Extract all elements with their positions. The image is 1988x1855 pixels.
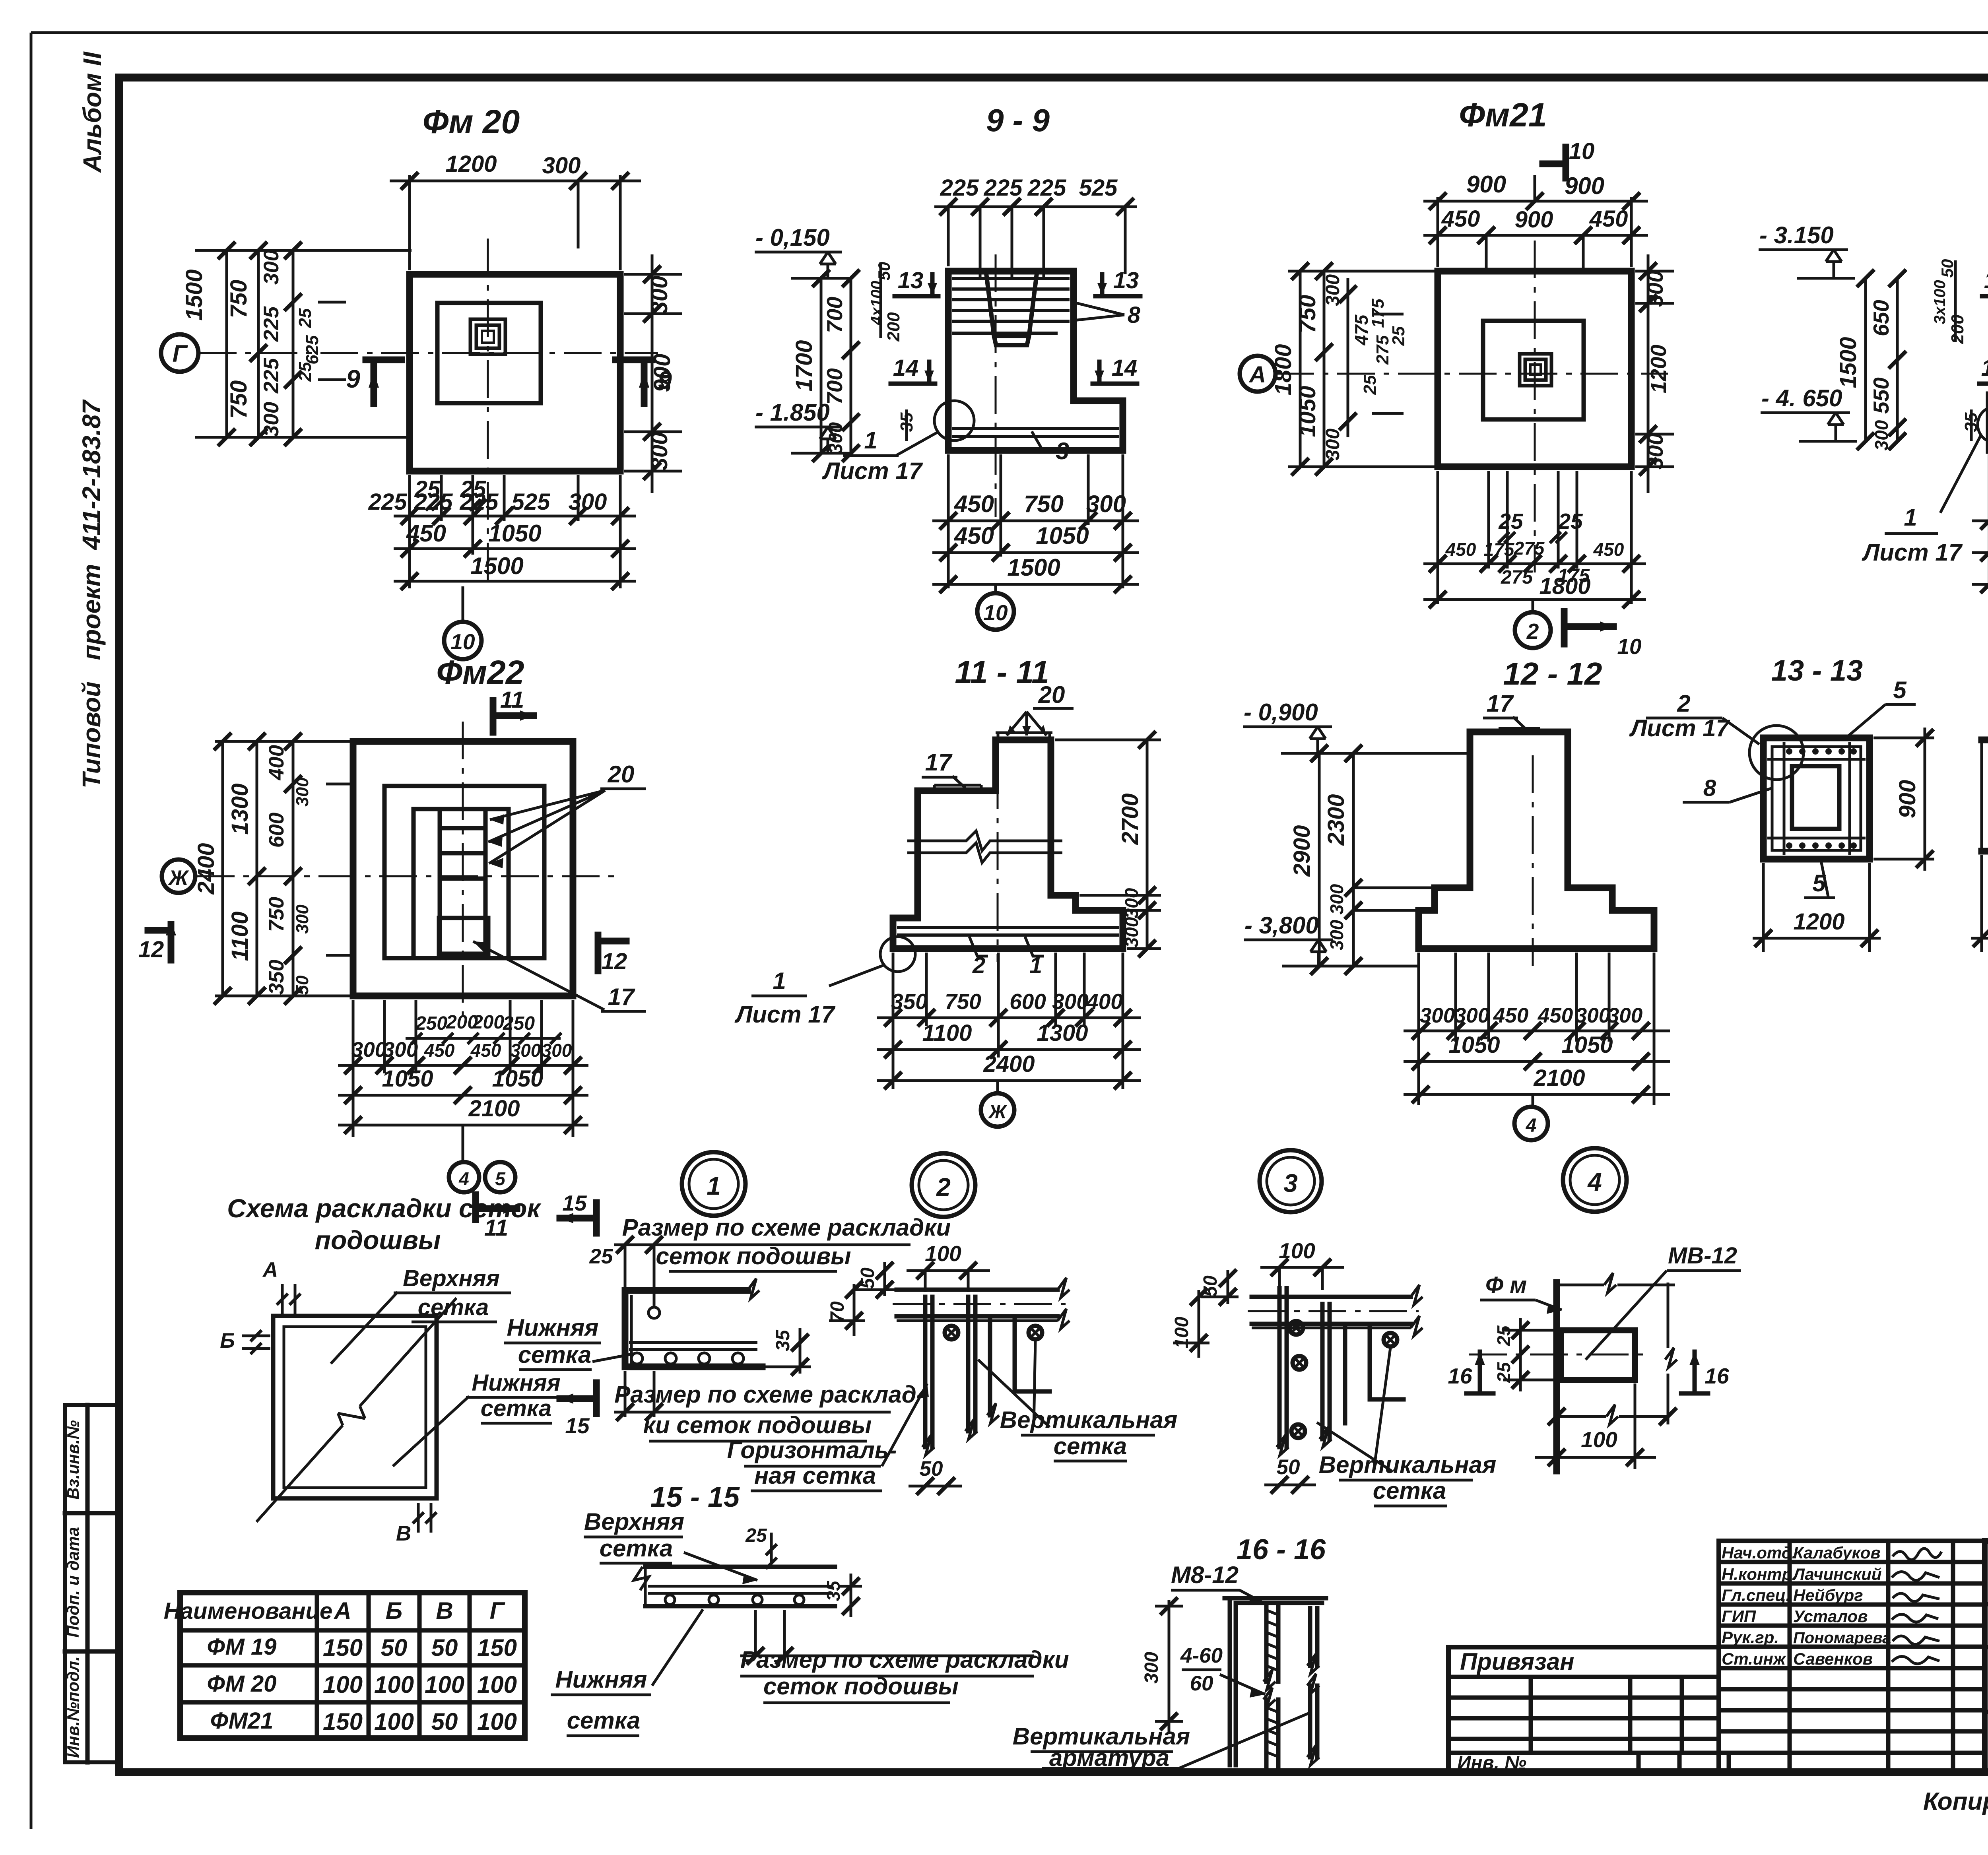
- svg-text:100: 100: [1581, 1427, 1617, 1452]
- svg-text:Горизонталь-: Горизонталь-: [727, 1437, 897, 1463]
- dim 1500: [940, 576, 957, 593]
- svg-text:Альбом II: Альбом II: [78, 51, 107, 173]
- svg-text:А: А: [262, 1258, 278, 1282]
- break line across columns: [907, 831, 1062, 863]
- foundation Фм22 middle step: [384, 786, 544, 958]
- uzel 3 corner wall: [1345, 1328, 1404, 1423]
- dim chain top 1200 300: [390, 175, 641, 270]
- svg-text:Фм21: Фм21: [1459, 96, 1547, 134]
- svg-text:300: 300: [646, 432, 672, 471]
- svg-text:300: 300: [293, 904, 312, 934]
- svg-text:Типовой проект 411-2-183.87: Типовой проект 411-2-183.87: [77, 399, 106, 788]
- section marker 16 right: [1693, 1352, 1697, 1393]
- dim right 2700 300 300: [1055, 740, 1161, 949]
- svg-text:100: 100: [477, 1671, 517, 1698]
- svg-text:700: 700: [822, 368, 847, 405]
- svg-text:8: 8: [1703, 775, 1716, 801]
- dim chain right 300 900 300: [624, 254, 682, 493]
- section marker 15 top: [560, 1203, 596, 1233]
- slab band 15-15: [645, 1567, 835, 1606]
- svg-text:Лист 17: Лист 17: [734, 1001, 836, 1028]
- foundation Фм21 column socket: [1520, 354, 1551, 386]
- dim 1200 below 13-13: [1753, 863, 1881, 952]
- main title block: [1985, 1541, 1988, 1772]
- svg-text:14: 14: [1112, 355, 1138, 381]
- svg-text:300: 300: [1121, 888, 1142, 918]
- svg-text:300: 300: [646, 276, 672, 314]
- svg-text:300: 300: [1575, 1004, 1610, 1027]
- svg-text:300: 300: [511, 1040, 541, 1061]
- svg-text:4: 4: [1587, 1168, 1602, 1196]
- axis circle Ж: [162, 860, 195, 893]
- svg-text:Усталов: Усталов: [1793, 1607, 1868, 1626]
- svg-text:300: 300: [569, 489, 607, 515]
- section 11-11 foundation outline: [893, 740, 1123, 949]
- svg-text:225: 225: [414, 489, 453, 515]
- svg-text:Ж: Ж: [988, 1102, 1008, 1123]
- axis circle А: [1240, 356, 1276, 392]
- leader 8 top mesh: [1074, 303, 1124, 320]
- svg-text:750: 750: [226, 380, 252, 419]
- dim 1700 vertical: [820, 278, 823, 453]
- dim 900 right 13-13: [1873, 728, 1934, 871]
- centerline vertical Фм22: [462, 722, 464, 1018]
- svg-text:В: В: [436, 1597, 453, 1624]
- svg-text:450: 450: [406, 520, 446, 547]
- svg-text:625: 625: [303, 335, 322, 365]
- section marker 15 bottom: [560, 1383, 596, 1414]
- svg-text:1050: 1050: [488, 520, 541, 547]
- dim cluster left of Фм20: [195, 250, 412, 437]
- svg-text:175: 175: [1484, 539, 1515, 560]
- section 9-9 foundation outline: [948, 271, 1123, 450]
- svg-text:Лачинский: Лачинский: [1792, 1565, 1882, 1583]
- axis circle Ж below 11-11: [996, 1081, 999, 1093]
- svg-text:900: 900: [649, 354, 675, 392]
- foundation Фм20 outer slab outline: [410, 274, 620, 471]
- svg-text:14: 14: [893, 355, 919, 381]
- svg-text:550: 550: [1869, 377, 1893, 414]
- svg-text:15: 15: [562, 1191, 587, 1215]
- uzel 2 vertical mesh posts: [925, 1297, 975, 1447]
- dim chain below 350 750 600 300 400: [877, 953, 1141, 1089]
- svg-text:300: 300: [1052, 989, 1089, 1014]
- svg-text:3: 3: [1056, 438, 1069, 464]
- svg-text:300: 300: [825, 422, 846, 454]
- detail circle 2: [912, 1153, 975, 1217]
- dim chain top 900 900: [1423, 175, 1648, 267]
- svg-text:450: 450: [954, 491, 994, 517]
- svg-text:12 - 12: 12 - 12: [1503, 656, 1602, 691]
- foundation Фм22 column sockets pattern: [414, 809, 509, 958]
- svg-text:Г: Г: [490, 1597, 506, 1624]
- svg-text:17: 17: [1487, 690, 1514, 717]
- svg-text:10: 10: [1617, 634, 1642, 659]
- svg-text:50: 50: [1277, 1455, 1300, 1479]
- svg-text:600: 600: [1010, 989, 1046, 1014]
- svg-text:2400: 2400: [193, 843, 219, 895]
- svg-text:750: 750: [226, 280, 252, 318]
- section 12-12 foundation outline: [1419, 732, 1654, 949]
- section 11-11 centerline: [997, 771, 999, 962]
- svg-text:100: 100: [1279, 1238, 1315, 1263]
- svg-text:Схема раскладки сеток: Схема раскладки сеток: [227, 1193, 542, 1223]
- svg-text:9 - 9: 9 - 9: [986, 103, 1050, 138]
- dim chain top 450 900 450: [1423, 235, 1648, 270]
- mesh wire circles uzel 1: [631, 1353, 643, 1364]
- slab mesh 11-11: [897, 927, 1119, 935]
- svg-text:60: 60: [1190, 1672, 1213, 1695]
- section marker 9 right: [615, 360, 652, 404]
- svg-text:Вз.инв.№: Вз.инв.№: [64, 1420, 82, 1500]
- bottom mesh lines uzel 1: [629, 1343, 757, 1350]
- svg-text:9: 9: [346, 365, 360, 393]
- svg-text:Нач.отд.: Нач.отд.: [1722, 1543, 1796, 1562]
- svg-text:Размер по схеме раскладки: Размер по схеме раскладки: [622, 1214, 951, 1241]
- svg-text:20: 20: [608, 761, 635, 788]
- svg-text:225: 225: [368, 489, 408, 515]
- section 9-9 column socket cup: [986, 272, 1037, 345]
- svg-text:225: 225: [460, 489, 499, 515]
- section marker 14 left: [1979, 362, 1988, 384]
- svg-text:150: 150: [477, 1634, 517, 1661]
- svg-text:2100: 2100: [468, 1096, 520, 1122]
- svg-text:35: 35: [823, 1580, 844, 1601]
- svg-text:Верхняя: Верхняя: [584, 1508, 684, 1535]
- svg-text:13: 13: [898, 268, 924, 293]
- dim 700 700 300 vertical: [850, 278, 852, 453]
- svg-text:2: 2: [1526, 619, 1539, 644]
- svg-text:100: 100: [425, 1671, 464, 1698]
- svg-text:1: 1: [1904, 504, 1917, 531]
- dim cluster left of Фм21: [1288, 271, 1438, 467]
- centerline vertical Фм21: [1534, 241, 1536, 572]
- section marker 13 right: [1095, 274, 1140, 296]
- mesh wire circles 15-15: [665, 1595, 675, 1605]
- svg-text:- 3,800: - 3,800: [1244, 912, 1319, 939]
- bottom label Размер по схеме раскладки 15-15: [755, 1610, 784, 1656]
- svg-text:250: 250: [415, 1013, 447, 1034]
- dims below Фм21: [1423, 471, 1646, 604]
- uzel 2 horizontal slab band: [897, 1290, 1058, 1316]
- svg-text:Лист 17: Лист 17: [1629, 715, 1730, 741]
- svg-text:300: 300: [1420, 1004, 1455, 1027]
- svg-text:13 - 13: 13 - 13: [1771, 654, 1863, 687]
- svg-text:450: 450: [470, 1040, 501, 1061]
- section marker 16 left: [1478, 1352, 1482, 1393]
- svg-text:1050: 1050: [1448, 1032, 1500, 1058]
- left column top plate: [934, 785, 981, 791]
- svg-text:2700: 2700: [1117, 793, 1143, 845]
- axis circle Г: [161, 334, 198, 372]
- section marker 14 right: [1093, 362, 1137, 384]
- dim chains below Фм20: [394, 475, 636, 588]
- svg-text:300: 300: [1454, 1004, 1489, 1027]
- svg-text:13: 13: [1113, 268, 1139, 293]
- axis circle 10 below 9-9: [994, 584, 997, 593]
- svg-text:100: 100: [925, 1241, 961, 1266]
- svg-text:- 1.850: - 1.850: [755, 399, 830, 426]
- centerline horizontal: [199, 352, 658, 354]
- svg-text:1100: 1100: [227, 912, 253, 961]
- svg-text:200: 200: [472, 1012, 504, 1033]
- svg-text:200: 200: [1948, 314, 1967, 344]
- svg-text:25: 25: [589, 1245, 613, 1268]
- second rod 16-16: [1310, 1608, 1317, 1757]
- svg-text:1500: 1500: [1007, 554, 1060, 581]
- svg-text:МВ-12: МВ-12: [1668, 1243, 1737, 1269]
- mesh opening: [1792, 766, 1839, 829]
- left stamp column: [65, 1405, 119, 1762]
- svg-text:300: 300: [1643, 433, 1668, 470]
- svg-text:Пономарева: Пономарева: [1793, 1629, 1891, 1647]
- svg-text:25: 25: [295, 308, 315, 328]
- svg-text:225: 225: [1027, 175, 1067, 201]
- svg-text:17: 17: [925, 749, 953, 776]
- svg-text:сетка: сетка: [1373, 1477, 1446, 1504]
- svg-text:4: 4: [458, 1168, 469, 1189]
- svg-text:Савенков: Савенков: [1793, 1649, 1873, 1668]
- svg-text:1500: 1500: [1835, 337, 1861, 388]
- svg-text:300: 300: [1326, 884, 1347, 914]
- axis circle 2 below Фм21: [1532, 600, 1534, 612]
- svg-text:1200: 1200: [445, 151, 497, 177]
- svg-text:17: 17: [608, 984, 635, 1010]
- svg-text:2400: 2400: [983, 1051, 1035, 1077]
- svg-text:Вертикальная: Вертикальная: [1000, 1407, 1177, 1433]
- svg-text:Лист 17: Лист 17: [822, 458, 923, 484]
- svg-text:16: 16: [1705, 1364, 1729, 1388]
- svg-text:3x100: 3x100: [1931, 280, 1949, 324]
- axis circle 4 below 12-12: [1532, 1094, 1534, 1108]
- svg-text:1050: 1050: [1036, 522, 1089, 549]
- svg-text:225: 225: [984, 175, 1023, 201]
- svg-text:750: 750: [1295, 295, 1320, 334]
- svg-text:450: 450: [1445, 539, 1476, 560]
- svg-text:225: 225: [940, 175, 979, 201]
- svg-text:1050: 1050: [1295, 386, 1320, 437]
- svg-text:Размер по схеме раскладки: Размер по схеме раскладки: [740, 1646, 1069, 1673]
- svg-text:300: 300: [1121, 917, 1142, 947]
- mesh bars 13-13: [1767, 742, 1866, 855]
- section 13-13 column mesh square: [1763, 738, 1870, 859]
- svg-text:13: 13: [1984, 268, 1988, 293]
- section marker 11 above Фм22: [493, 700, 534, 732]
- svg-text:1200: 1200: [1646, 344, 1671, 393]
- svg-text:16 - 16: 16 - 16: [1237, 1534, 1326, 1566]
- dim line with break uzel 4: [1557, 1405, 1668, 1424]
- svg-text:16: 16: [1448, 1364, 1472, 1388]
- axis circles 4 and 5 below Фм22: [462, 1125, 464, 1162]
- svg-text:50: 50: [293, 975, 312, 995]
- svg-text:300: 300: [1086, 491, 1126, 517]
- foundation Фм20 column socket: [470, 319, 505, 354]
- svg-text:275: 275: [1514, 538, 1545, 559]
- section marker 10 above Фм21: [1543, 147, 1566, 178]
- svg-text:1300: 1300: [1037, 1020, 1088, 1046]
- svg-text:Б: Б: [220, 1329, 235, 1352]
- weld circles uzel 3: [1289, 1321, 1303, 1335]
- svg-text:3: 3: [1283, 1169, 1298, 1197]
- svg-text:Нейбург: Нейбург: [1793, 1586, 1863, 1605]
- foundation Фм22 small pocket: [439, 918, 488, 954]
- section marker 12 right: [598, 935, 626, 971]
- svg-text:- 0,900: - 0,900: [1244, 699, 1318, 726]
- detail circle 4: [1563, 1148, 1627, 1212]
- signature scribbles: [1893, 1548, 1941, 1560]
- svg-text:11: 11: [500, 687, 524, 713]
- svg-text:Гл.спец.: Гл.спец.: [1722, 1586, 1790, 1605]
- svg-text:225: 225: [260, 357, 283, 394]
- svg-text:- 0,150: - 0,150: [755, 224, 830, 251]
- dim 2900 vertical: [1318, 753, 1321, 966]
- svg-text:ки сеток подошвы: ки сеток подошвы: [643, 1412, 872, 1438]
- svg-text:450: 450: [954, 522, 994, 549]
- svg-text:15: 15: [565, 1413, 590, 1438]
- svg-text:650: 650: [1869, 300, 1893, 336]
- dim chains below Фм22: [338, 1000, 588, 1137]
- anchor plate 16-16: [1225, 1598, 1326, 1765]
- svg-text:25: 25: [1389, 326, 1408, 346]
- svg-text:сетка: сетка: [600, 1535, 673, 1562]
- axis circle 10 below Фм20: [462, 586, 464, 621]
- svg-text:300: 300: [1643, 270, 1668, 307]
- svg-text:Г: Г: [173, 340, 188, 367]
- foundation Фм20 middle step: [437, 303, 541, 403]
- centerline horizontal Фм22: [197, 875, 614, 877]
- svg-text:50: 50: [875, 262, 893, 281]
- svg-text:300: 300: [1326, 920, 1347, 950]
- threaded rod 16-16: [1266, 1603, 1278, 1767]
- uzel 4 top edge with break: [1557, 1273, 1675, 1293]
- svg-text:450: 450: [1493, 1004, 1528, 1027]
- svg-text:525: 525: [1079, 175, 1118, 201]
- svg-text:2: 2: [1677, 690, 1690, 717]
- svg-text:50: 50: [920, 1457, 943, 1481]
- detail circle 3: [1260, 1150, 1322, 1212]
- dim chain 450 1050: [940, 544, 957, 561]
- svg-text:300: 300: [383, 1038, 418, 1061]
- svg-text:25: 25: [1498, 509, 1524, 534]
- uzel 4 foundation edge vertical: [1553, 1283, 1560, 1471]
- svg-text:25: 25: [295, 362, 315, 382]
- section 9-9 centerline: [995, 254, 997, 517]
- section marker 13 left: [1982, 274, 1988, 296]
- svg-text:Подп. и дата: Подп. и дата: [64, 1527, 82, 1638]
- svg-text:Н.контр.: Н.контр.: [1722, 1565, 1797, 1583]
- svg-text:Ж: Ж: [167, 866, 189, 890]
- svg-text:ГИП: ГИП: [1722, 1607, 1756, 1626]
- section 12-12 centerline: [1532, 755, 1534, 966]
- svg-text:ФМ 20: ФМ 20: [207, 1671, 277, 1697]
- svg-text:300: 300: [1141, 1652, 1162, 1684]
- svg-text:- 4. 650: - 4. 650: [1761, 385, 1842, 411]
- svg-text:300: 300: [260, 250, 283, 285]
- foundation Фм21 middle step: [1483, 321, 1584, 419]
- detail circle 1 Лист 17: [1978, 406, 1988, 443]
- svg-text:14: 14: [1981, 355, 1988, 381]
- svg-text:50: 50: [431, 1634, 458, 1661]
- svg-text:2900: 2900: [1289, 825, 1315, 877]
- weld circles uzel 2: [945, 1326, 958, 1339]
- leader 1 slab mesh: [1025, 937, 1044, 956]
- svg-text:225: 225: [260, 306, 283, 342]
- svg-text:100: 100: [374, 1708, 414, 1735]
- svg-text:5: 5: [495, 1168, 506, 1189]
- svg-text:300: 300: [1607, 1004, 1642, 1027]
- svg-text:350: 350: [891, 989, 928, 1014]
- svg-text:300: 300: [351, 1038, 386, 1061]
- svg-text:20: 20: [1038, 681, 1065, 708]
- dim chain below 450 750 300: [932, 454, 1139, 588]
- svg-text:1800: 1800: [1270, 344, 1296, 395]
- svg-text:Привязан: Привязан: [1460, 1648, 1574, 1675]
- svg-text:450: 450: [1593, 539, 1624, 560]
- uzel 3 vertical mesh posts: [1279, 1288, 1330, 1447]
- svg-text:А: А: [1248, 362, 1266, 388]
- svg-text:сетка: сетка: [567, 1707, 641, 1734]
- svg-text:Копировал Решетило: Копировал Решетило: [1923, 1788, 1988, 1815]
- svg-text:2: 2: [936, 1173, 951, 1201]
- svg-text:В: В: [396, 1522, 411, 1545]
- svg-text:Инв. №: Инв. №: [1457, 1752, 1526, 1774]
- svg-text:сеток подошвы: сеток подошвы: [656, 1243, 851, 1269]
- svg-text:М8-12: М8-12: [1171, 1562, 1239, 1588]
- svg-text:450: 450: [1441, 206, 1480, 232]
- svg-text:1050: 1050: [492, 1066, 543, 1092]
- svg-text:900: 900: [1515, 207, 1553, 233]
- svg-text:сеток подошвы: сеток подошвы: [763, 1673, 959, 1700]
- svg-text:Фм22: Фм22: [436, 654, 524, 691]
- svg-text:300: 300: [1322, 429, 1343, 460]
- svg-text:450: 450: [1538, 1004, 1573, 1027]
- mesh dots top: [1786, 748, 1857, 755]
- svg-text:Нижняя: Нижняя: [555, 1666, 647, 1693]
- svg-text:150: 150: [323, 1708, 363, 1735]
- signatures table: [1719, 1541, 1985, 1772]
- svg-text:10: 10: [983, 600, 1008, 625]
- uzel 2 corner wall: [990, 1321, 1050, 1415]
- svg-text:сетка: сетка: [1054, 1433, 1127, 1459]
- svg-text:сетка: сетка: [481, 1395, 551, 1421]
- svg-text:4x100: 4x100: [868, 281, 885, 325]
- detail circle Лист 17: [934, 401, 974, 440]
- svg-text:50: 50: [1938, 259, 1957, 278]
- svg-text:275: 275: [1501, 567, 1533, 588]
- svg-text:1050: 1050: [1561, 1032, 1613, 1058]
- svg-text:12: 12: [602, 949, 627, 974]
- svg-text:750: 750: [945, 989, 981, 1014]
- svg-text:300: 300: [542, 153, 581, 179]
- svg-text:11 - 11: 11 - 11: [955, 654, 1049, 690]
- svg-text:сетка: сетка: [518, 1341, 592, 1368]
- svg-text:100: 100: [323, 1671, 363, 1698]
- svg-text:Фм 20: Фм 20: [423, 103, 520, 140]
- svg-text:2100: 2100: [1533, 1065, 1585, 1091]
- svg-text:25: 25: [745, 1525, 767, 1546]
- svg-text:100: 100: [374, 1671, 414, 1698]
- svg-text:400: 400: [265, 745, 288, 780]
- svg-text:1: 1: [864, 427, 877, 454]
- cap plate 12-12: [1499, 728, 1540, 732]
- svg-text:1: 1: [707, 1172, 721, 1200]
- mesh dots bottom: [1786, 842, 1857, 849]
- svg-text:Вертикальная: Вертикальная: [1319, 1451, 1496, 1478]
- uzel 1 slab corner with meshes: [625, 1245, 654, 1308]
- section marker 10 right of circle 2: [1564, 611, 1613, 644]
- dim chain right of Фм21 300 1200 300: [1635, 254, 1674, 493]
- svg-text:300: 300: [1322, 274, 1343, 306]
